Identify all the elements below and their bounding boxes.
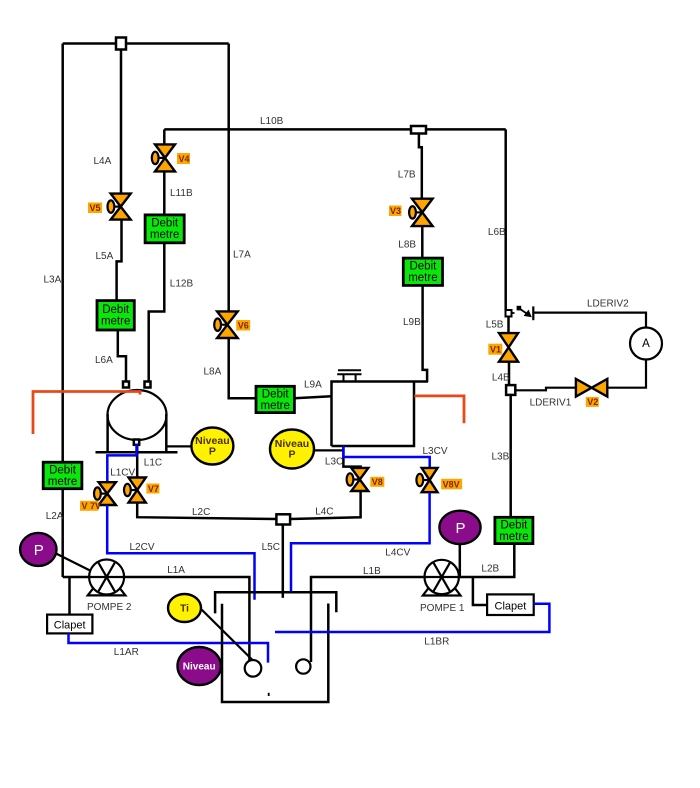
tank2: [332, 382, 429, 447]
svg-text:metre: metre: [48, 476, 77, 488]
label V3: [389, 206, 402, 217]
wire L1A: [124, 577, 249, 662]
wire L4CV blue: [291, 492, 430, 593]
vessel bottom square: [134, 440, 139, 445]
svg-text:L4C: L4C: [315, 507, 333, 518]
valve V2: [576, 379, 607, 397]
svg-text:V8V: V8V: [443, 479, 460, 489]
svg-text:Clapet: Clapet: [495, 600, 527, 612]
label V8: [370, 477, 384, 487]
ammeter A: [630, 328, 662, 360]
indicator Ti: [168, 594, 254, 662]
svg-text:L3CV: L3CV: [423, 446, 448, 457]
wire LDERIV2: [533, 313, 646, 328]
svg-text:P: P: [34, 542, 44, 559]
label V5: [88, 203, 102, 214]
indicator NiveauP2: [270, 430, 342, 469]
probe circle left: [245, 660, 262, 677]
svg-text:L1B: L1B: [363, 566, 381, 577]
svg-text:LDERIV2: LDERIV2: [587, 299, 629, 310]
wire L8B: [421, 226, 424, 258]
svg-text:L4CV: L4CV: [385, 548, 410, 559]
indicator P2: [20, 533, 91, 571]
wire L12B: [149, 243, 165, 384]
wire L6A: [118, 330, 126, 384]
pump POMPE1: [423, 560, 461, 596]
wire L1B: [311, 577, 425, 662]
valve V5: [108, 194, 131, 220]
tank3 outer bracket: [215, 592, 336, 613]
tank2 vent: [337, 370, 361, 381]
wire L1BR blue: [275, 604, 549, 632]
wire LDERIV1: [515, 388, 576, 391]
svg-text:Debit: Debit: [102, 304, 130, 316]
wire L1C black: [136, 445, 139, 479]
wire L5A: [117, 220, 122, 301]
svg-text:V8: V8: [372, 477, 383, 487]
wire L3A: [61, 44, 64, 578]
wire L2C: [137, 503, 276, 519]
svg-text:Debit: Debit: [409, 261, 437, 273]
svg-text:L2A: L2A: [46, 511, 64, 522]
svg-text:metre: metre: [499, 531, 528, 543]
svg-text:V7: V7: [148, 484, 159, 494]
wire L11B: [163, 171, 166, 215]
valve V6: [214, 311, 237, 338]
valve V7: [124, 478, 146, 503]
svg-text:L1BR: L1BR: [424, 637, 449, 648]
valve V8V: [416, 468, 437, 492]
svg-text:L2C: L2C: [192, 507, 210, 518]
svg-text:L10B: L10B: [260, 116, 284, 127]
svg-text:Debit: Debit: [49, 464, 77, 476]
label V8V: [441, 479, 462, 490]
svg-text:L2CV: L2CV: [130, 542, 155, 553]
wire clapet2 branch: [68, 577, 71, 615]
junction J3: [276, 514, 290, 524]
wire L2B: [459, 544, 514, 577]
svg-text:L3A: L3A: [44, 275, 62, 286]
debitmetre DM-L9A: [256, 386, 294, 412]
tank3 inner: [222, 604, 328, 703]
svg-text:L9B: L9B: [403, 317, 421, 328]
svg-text:metre: metre: [150, 229, 179, 241]
wire L4A: [120, 50, 123, 195]
svg-text:Clapet: Clapet: [54, 620, 86, 632]
svg-text:V4: V4: [179, 154, 190, 164]
svg-text:A: A: [642, 338, 650, 350]
valve V7V: [94, 482, 116, 505]
wire L7A: [227, 44, 230, 313]
valve V8: [347, 468, 369, 491]
wire top header: [63, 42, 229, 45]
svg-text:L5C: L5C: [262, 542, 280, 553]
svg-text:POMPE 1: POMPE 1: [420, 603, 465, 614]
debitmetre DM-L2A: [43, 462, 82, 489]
wire L8A: [229, 338, 256, 398]
wire pompe2 inlet: [63, 576, 90, 579]
wire L5C black: [282, 525, 285, 598]
indicator Niveau: [178, 647, 221, 685]
wire L2CV blue: [107, 505, 254, 600]
label V6: [236, 320, 250, 331]
svg-text:metre: metre: [101, 316, 130, 328]
label V2: [586, 397, 599, 407]
svg-text:LDERIV1: LDERIV1: [530, 398, 572, 409]
debitmetre DM-L5A: [97, 301, 134, 330]
svg-text:L7B: L7B: [398, 170, 416, 181]
svg-text:L6B: L6B: [488, 227, 506, 238]
wire L9B: [423, 285, 428, 382]
valve V4: [152, 144, 175, 171]
wire L1CV blue: [107, 444, 136, 484]
svg-text:L1AR: L1AR: [114, 647, 139, 658]
svg-text:L4A: L4A: [94, 156, 112, 167]
svg-text:L7A: L7A: [233, 250, 251, 261]
label V1: [488, 344, 502, 355]
junction WS white square: [506, 385, 515, 395]
wire from A to V2: [608, 360, 647, 388]
wire L4B: [508, 362, 511, 385]
wire L3C black: [343, 446, 360, 469]
debitmetre DM-L8B: [403, 258, 442, 285]
svg-text:V1: V1: [490, 345, 501, 355]
label V7: [146, 484, 159, 494]
clapet box left: [47, 615, 92, 634]
svg-text:L5B: L5B: [486, 320, 504, 331]
svg-text:L4B: L4B: [492, 373, 510, 384]
svg-text:L9A: L9A: [304, 380, 322, 391]
wire L3CV blue: [343, 446, 429, 469]
wire L3B: [509, 395, 512, 517]
label V7V: [80, 501, 101, 511]
wire L5B: [507, 317, 510, 335]
junction J1: [116, 38, 126, 50]
svg-text:Debit: Debit: [262, 388, 290, 400]
svg-text:metre: metre: [260, 400, 289, 412]
svg-text:L8A: L8A: [204, 367, 222, 378]
svg-text:V3: V3: [390, 206, 401, 216]
svg-text:POMPE 2: POMPE 2: [87, 602, 132, 613]
svg-text:V2: V2: [587, 397, 598, 407]
svg-text:Niveau: Niveau: [183, 662, 216, 673]
svg-text:L11B: L11B: [170, 188, 193, 199]
wire L4C: [290, 492, 361, 519]
svg-text:L6A: L6A: [95, 355, 113, 366]
svg-text:V5: V5: [90, 203, 101, 213]
svg-text:Debit: Debit: [151, 218, 179, 230]
valve V3: [409, 199, 433, 226]
svg-text:L12B: L12B: [170, 279, 194, 290]
vessel cylinder: [96, 390, 178, 452]
svg-text:metre: metre: [408, 272, 437, 284]
svg-text:L1A: L1A: [167, 565, 185, 576]
debitmetre DM-L11B: [145, 215, 184, 243]
label V4: [177, 153, 190, 164]
junction SJ small square on L6B: [506, 310, 512, 317]
wire L9A link: [294, 396, 331, 398]
switch lever: [512, 306, 534, 320]
svg-text:L1C: L1C: [144, 458, 162, 469]
wire L10B: [164, 128, 505, 131]
svg-text:Ti: Ti: [180, 604, 189, 615]
svg-text:L2B: L2B: [481, 564, 499, 575]
debitmetre DM-L2B: [495, 517, 533, 543]
valve V1: [499, 333, 518, 362]
svg-text:P: P: [455, 520, 465, 537]
svg-text:P: P: [209, 446, 216, 458]
wire L6B: [504, 129, 507, 310]
pump POMPE2: [88, 560, 126, 596]
junction J2: [411, 126, 426, 134]
svg-text:Debit: Debit: [500, 519, 528, 531]
svg-text:V6: V6: [238, 321, 249, 331]
svg-text:V 7V: V 7V: [82, 501, 102, 511]
indicator P1: [439, 511, 480, 577]
wire clapet1 branch: [473, 577, 487, 605]
tick mark: [268, 693, 270, 696]
wire V4 riser: [163, 129, 166, 145]
clapet box right: [487, 594, 534, 615]
svg-text:L5A: L5A: [96, 251, 114, 262]
probe circle right: [296, 659, 310, 673]
vessel cylinder squares: [123, 382, 129, 388]
svg-text:L3B: L3B: [492, 452, 510, 463]
svg-text:P: P: [288, 449, 295, 461]
svg-text:L3C: L3C: [325, 457, 343, 468]
indicator NiveauP1: [166, 428, 233, 465]
orange bracket right: [414, 396, 464, 423]
wire L1AR blue: [69, 633, 269, 662]
wire V3 riser: [419, 134, 422, 200]
svg-text:L8B: L8B: [398, 240, 416, 251]
orange bracket left: [33, 392, 140, 435]
